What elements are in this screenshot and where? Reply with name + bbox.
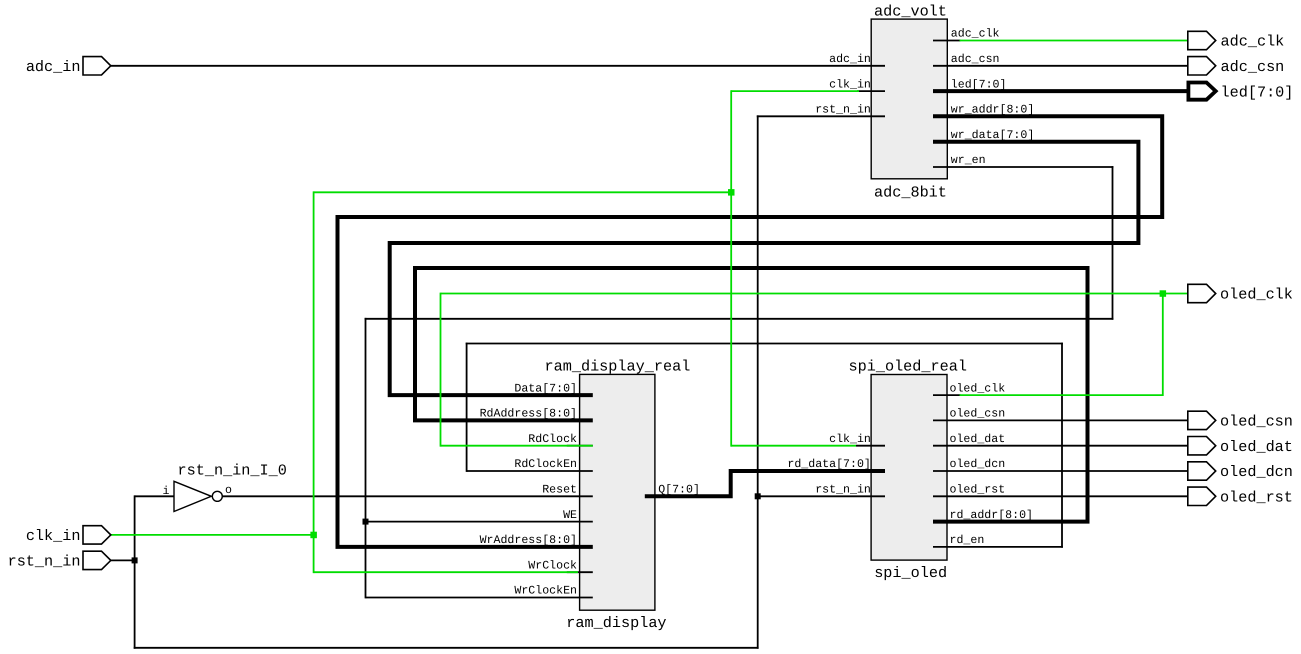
svg-text:i: i [163, 485, 170, 498]
junction: oled_clk net green at output port branch [1160, 290, 1167, 297]
svg-text:rst_n_in: rst_n_in [8, 553, 81, 571]
svg-text:RdClock: RdClock [528, 433, 577, 446]
svg-text:RdClockEn: RdClockEn [514, 458, 577, 471]
output port oled_dcn [1188, 462, 1216, 480]
wire: clk net green upper horizontal [314, 191, 732, 193]
wire: oled_rst net from spi_oled to output port [933, 495, 1188, 497]
wire: rst_n net left vertical [134, 495, 136, 648]
svg-text:Reset: Reset [542, 484, 577, 497]
junction: clk net green at clk_in port branch [310, 532, 317, 539]
bus: rd_addr[8:0] net from spi_oled to ram_display RdAddress[8:0] [415, 268, 1088, 522]
wire: oled_clk net green long horizontal to output port [441, 293, 1189, 295]
wire: rd_en net right vertical [1061, 343, 1063, 548]
wire: adc_8bit adc_clk pin stub [933, 40, 961, 42]
svg-text:spi_oled: spi_oled [874, 564, 947, 582]
svg-text:Data[7:0]: Data[7:0] [514, 382, 577, 395]
wire: rd_en net top horizontal [466, 343, 1063, 345]
svg-text:adc_in: adc_in [829, 53, 871, 66]
wire: adc_clk net green from adc_8bit to output port [960, 40, 1189, 42]
svg-text:rd_addr[8:0]: rd_addr[8:0] [950, 509, 1034, 522]
wire: rst_n net right vertical [757, 115, 759, 648]
svg-text:oled_dat: oled_dat [1220, 438, 1293, 456]
wire: clk net green to adc_8bit clk_in pin [731, 90, 859, 92]
wire: clk net green to spi_oled clk_in pin [731, 445, 856, 447]
wire: clk net green middle vertical [730, 90, 732, 446]
svg-text:rd_en: rd_en [950, 534, 985, 547]
svg-text:o: o [225, 484, 232, 497]
wire: rst_n net to inverter input [135, 495, 174, 497]
wire: ram_display WrClock pin stub [567, 571, 593, 573]
inverter rst_n_in_I_0 bubble [212, 491, 222, 501]
junction: clk net green at upper branch [728, 189, 735, 196]
wire: adc_csn net from adc_8bit to output port [933, 65, 1188, 67]
svg-text:oled_clk: oled_clk [950, 382, 1006, 395]
svg-text:adc_8bit: adc_8bit [874, 183, 947, 201]
output port oled_dat [1188, 437, 1216, 455]
wire: wr_en net left vertical [365, 318, 367, 599]
output port oled_csn [1188, 411, 1216, 429]
wire: clk net green to ram_display WrClock pin [314, 571, 578, 573]
svg-text:wr_data[7:0]: wr_data[7:0] [951, 129, 1035, 142]
svg-text:adc_in: adc_in [26, 58, 81, 76]
wire: adc_8bit clk_in pin stub [857, 90, 885, 92]
svg-text:clk_in: clk_in [829, 433, 871, 446]
wire: spi_oled oled_clk pin stub [933, 394, 961, 396]
svg-text:oled_csn: oled_csn [1220, 413, 1293, 431]
svg-text:adc_clk: adc_clk [951, 28, 1000, 41]
output port adc_clk [1188, 31, 1216, 49]
junction: rst_n net at rst_n_in port [132, 557, 138, 563]
wire: rst_n net to adc_8bit rst_n_in pin [757, 115, 885, 117]
wire: oled_clk net green left vertical [440, 293, 442, 447]
svg-text:oled_rst: oled_rst [950, 484, 1006, 497]
input port rst_n_in [83, 551, 111, 569]
output port led[7:0] (bus, thick) [1188, 83, 1215, 100]
wire: wr_en net middle horizontal [365, 318, 1114, 320]
svg-text:led[7:0]: led[7:0] [1221, 83, 1294, 101]
wire: rst_n net bottom horizontal [134, 647, 759, 649]
wire: oled_dcn net from spi_oled to output port [933, 470, 1188, 472]
block ram_display_real (instance ram_display) [580, 374, 655, 610]
bus: wr_data[7:0] net from adc_8bit to ram_display Data[7:0] [390, 142, 1139, 395]
svg-text:adc_csn: adc_csn [951, 53, 1000, 66]
svg-text:ram_display_real: ram_display_real [545, 358, 691, 376]
svg-text:adc_clk: adc_clk [1221, 33, 1285, 51]
svg-text:WrClock: WrClock [528, 559, 577, 572]
wire: rst_n_in port to junction [111, 559, 136, 561]
svg-text:led[7:0]: led[7:0] [951, 78, 1007, 91]
wire: spi_oled clk_in pin stub [856, 445, 885, 447]
svg-text:ram_display: ram_display [566, 614, 666, 632]
svg-text:oled_rst: oled_rst [1220, 489, 1293, 507]
svg-text:rst_n_in: rst_n_in [815, 484, 871, 497]
inverter rst_n_in_I_0 triangle [174, 481, 211, 511]
svg-text:rd_data[7:0]: rd_data[7:0] [787, 458, 871, 471]
svg-text:RdAddress[8:0]: RdAddress[8:0] [480, 408, 577, 421]
block spi_oled_real (instance spi_oled) [871, 375, 947, 561]
svg-text:oled_dcn: oled_dcn [1220, 463, 1293, 481]
wire: clk net green left vertical [313, 191, 315, 573]
svg-text:rst_n_in_I_0: rst_n_in_I_0 [178, 462, 287, 480]
svg-text:clk_in: clk_in [26, 527, 81, 545]
svg-text:oled_clk: oled_clk [1220, 286, 1293, 304]
output port adc_csn [1188, 57, 1216, 75]
wire: wr_en net to ram_display WrClockEn pin [366, 597, 593, 599]
wire: rd_en net from spi_oled pin [933, 546, 1063, 548]
wire: wr_en net from adc_8bit pin [933, 166, 1113, 168]
svg-text:adc_csn: adc_csn [1221, 58, 1285, 76]
svg-text:rst_n_in: rst_n_in [815, 104, 871, 117]
output port oled_rst [1188, 487, 1216, 505]
bus: wr_addr[8:0] net from adc_8bit to ram_display WrAddress[8:0] [338, 116, 1163, 547]
wire: oled_clk net green from spi_oled pin [960, 394, 1163, 396]
svg-text:oled_dcn: oled_dcn [950, 458, 1006, 471]
wire: wr_en net to ram_display WE pin [366, 521, 593, 523]
svg-text:Q[7:0]: Q[7:0] [658, 484, 700, 497]
wire: oled_clk net green to ram_display RdClock pin [441, 445, 593, 447]
junction: wr_en net at ram_display WE pin [363, 519, 369, 525]
wire: wr_en net right vertical [1112, 166, 1114, 320]
wire: inverter output to ram_display Reset pin [222, 495, 593, 497]
wire: oled_csn net from spi_oled to output port [933, 419, 1188, 421]
svg-text:wr_addr[8:0]: wr_addr[8:0] [951, 104, 1035, 117]
wire: net adc_in from input port to adc_8bit pin [111, 65, 885, 67]
output port oled_clk [1188, 284, 1216, 302]
wire: rd_en net to ram_display RdClockEn pin [467, 470, 593, 472]
wire: rst_n net to spi_oled rst_n_in pin [758, 495, 885, 497]
wire: oled_dat net from spi_oled to output port [933, 445, 1188, 447]
block adc_volt (instance adc_8bit) [871, 19, 947, 179]
wire: ram_display RdClock pin stub [567, 445, 593, 447]
svg-text:clk_in: clk_in [829, 78, 871, 91]
junction: rst_n net at spi_oled rst_n_in pin [755, 493, 761, 499]
svg-text:oled_dat: oled_dat [950, 433, 1006, 446]
svg-text:WrAddress[8:0]: WrAddress[8:0] [480, 534, 577, 547]
svg-text:adc_volt: adc_volt [874, 2, 947, 20]
input port clk_in [83, 526, 111, 544]
svg-text:wr_en: wr_en [951, 154, 986, 167]
wire: oled_clk net green right vertical [1162, 293, 1164, 396]
bus: rd_data[7:0] net from ram_display Q[7:0] to spi_oled [645, 471, 885, 496]
input port adc_in [83, 57, 111, 75]
svg-text:oled_csn: oled_csn [950, 408, 1006, 421]
svg-text:WE: WE [563, 509, 577, 522]
wire: rd_en net left vertical [466, 343, 468, 472]
svg-text:WrClockEn: WrClockEn [514, 585, 577, 598]
wire: clk net green from clk_in input port [111, 534, 314, 536]
svg-text:spi_oled_real: spi_oled_real [849, 358, 967, 376]
bus: led[7:0] from adc_8bit to output port [933, 89, 1188, 93]
